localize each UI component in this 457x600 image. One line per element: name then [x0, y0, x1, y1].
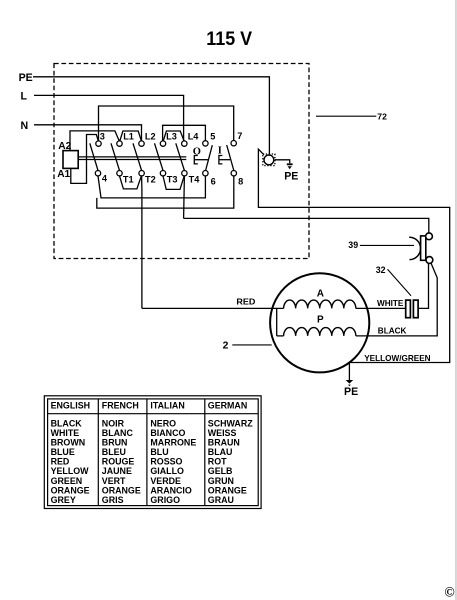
svg-text:GREEN: GREEN [51, 476, 83, 486]
svg-text:L3: L3 [166, 132, 177, 142]
svg-text:PE: PE [19, 72, 33, 84]
svg-text:PE: PE [284, 171, 298, 183]
wire bridge T3-T4 [163, 176, 184, 190]
svg-text:L4: L4 [188, 132, 200, 142]
page edge line [455, 0, 457, 600]
svg-text:T1: T1 [123, 174, 134, 184]
mechanical linkage lines [78, 156, 186, 158]
svg-text:©: © [444, 585, 454, 600]
wire bridge L3-L4 [163, 131, 184, 141]
wire capacitor to connector bottom [418, 263, 428, 308]
wire PE line [33, 77, 269, 154]
svg-text:7: 7 [237, 131, 242, 141]
wire RED lead into winding A [142, 307, 284, 309]
svg-text:115 V: 115 V [206, 28, 252, 50]
colour table column lines [97, 399, 99, 506]
wire T4 down [183, 176, 186, 219]
connector 39 bottom terminal [426, 257, 433, 264]
colour table outer border [44, 396, 261, 509]
connector 39 plug body [421, 236, 426, 260]
svg-text:GIALLO: GIALLO [150, 466, 184, 476]
svg-text:GREY: GREY [51, 495, 76, 505]
svg-text:NOIR: NOIR [102, 418, 125, 428]
wire bridge L1-L2 [120, 131, 142, 141]
svg-text:4: 4 [102, 174, 108, 184]
ground symbol at PE terminal [287, 163, 293, 165]
wire bus contact3 to contact7 [99, 106, 234, 141]
svg-text:ORANGE: ORANGE [208, 485, 247, 495]
svg-text:39: 39 [348, 240, 358, 250]
contact L4/T4 terminals [182, 141, 187, 146]
wire T2 down to motor RED [141, 176, 143, 309]
contact L1/T1 terminals [117, 141, 122, 146]
svg-text:YELLOW: YELLOW [51, 466, 90, 476]
svg-text:8: 8 [238, 177, 243, 187]
contact L2/T2 blade [133, 143, 142, 170]
wire A1 to contact3 top [71, 135, 99, 184]
svg-text:ITALIAN: ITALIAN [150, 401, 184, 411]
svg-text:N: N [21, 120, 29, 132]
connector 39 socket arc [409, 237, 420, 259]
wire PE terminal to ground [275, 160, 290, 164]
contact L2/T2 terminals [139, 141, 144, 146]
wire motor PE drop [348, 363, 350, 381]
leader line to 72 [316, 115, 376, 117]
wire P left lead [277, 335, 284, 337]
svg-text:ENGLISH: ENGLISH [51, 401, 90, 411]
svg-text:BLAU: BLAU [208, 447, 233, 457]
ground symbol motor PE [346, 380, 354, 384]
svg-text:GERMAN: GERMAN [208, 401, 247, 411]
svg-text:BRAUN: BRAUN [208, 438, 240, 448]
wire join A-P left [276, 308, 278, 336]
svg-text:WEISS: WEISS [208, 428, 237, 438]
svg-text:VERDE: VERDE [150, 476, 181, 486]
leader line to capacitor [388, 269, 412, 295]
svg-text:JAUNE: JAUNE [102, 466, 132, 476]
wire 8 to 4/6 junction [97, 176, 234, 208]
svg-text:BLU: BLU [150, 447, 168, 457]
colour table inner border [48, 399, 259, 506]
svg-text:MARRONE: MARRONE [150, 438, 196, 448]
svg-text:PE: PE [344, 386, 358, 398]
svg-text:BLEU: BLEU [102, 447, 126, 457]
svg-text:WHITE: WHITE [51, 428, 80, 438]
wire L line to L4 [34, 95, 184, 140]
svg-text:GELB: GELB [208, 466, 233, 476]
enclosure 72 dashed box [54, 64, 309, 259]
wire L3 top to 5 top [163, 125, 206, 141]
wire T4 to connector top [184, 218, 429, 232]
svg-text:VERT: VERT [102, 476, 126, 486]
svg-text:A: A [317, 288, 324, 299]
contact 7/8 terminals [231, 141, 236, 146]
svg-text:ROSSO: ROSSO [150, 457, 182, 467]
capacitor 32 [406, 300, 411, 318]
winding P [284, 328, 356, 336]
svg-text:GRAU: GRAU [208, 495, 234, 505]
leader line to motor [232, 344, 271, 346]
contact 5/6 terminals [203, 141, 208, 146]
svg-text:GRIS: GRIS [102, 495, 124, 505]
contact 3/4 blade [90, 143, 98, 170]
svg-text:GRUN: GRUN [208, 476, 234, 486]
svg-text:GRIGO: GRIGO [150, 495, 180, 505]
svg-text:T4: T4 [189, 174, 201, 184]
wire A2 to L1 top [70, 131, 119, 151]
svg-text:BLACK: BLACK [51, 418, 83, 428]
terminal PE box [263, 154, 275, 166]
svg-text:ORANGE: ORANGE [51, 485, 90, 495]
svg-text:72: 72 [377, 112, 387, 122]
svg-text:ORANGE: ORANGE [102, 485, 141, 495]
contact 7/8 blade [227, 145, 234, 171]
contact 3/4 terminals [96, 141, 101, 146]
colour table header line [48, 413, 259, 415]
contact L4/T4 blade [176, 143, 185, 170]
coil K1 A1/A2 [63, 151, 78, 169]
contact 5/6 blade [206, 145, 213, 170]
svg-text:2: 2 [223, 340, 229, 351]
svg-text:A1: A1 [57, 169, 70, 180]
svg-text:6: 6 [211, 177, 216, 187]
svg-text:BLACK: BLACK [378, 327, 407, 336]
svg-text:ROT: ROT [208, 457, 227, 467]
svg-text:ARANCIO: ARANCIO [150, 485, 192, 495]
wire PE terminal to yellow/green [258, 149, 449, 362]
contact L1/T1 blade [111, 143, 120, 170]
winding A [284, 300, 356, 308]
pushbutton I actuator [219, 156, 223, 164]
wire 4 to 6 [98, 176, 205, 198]
svg-text:ROUGE: ROUGE [102, 457, 135, 467]
svg-text:YELLOW/GREEN: YELLOW/GREEN [364, 354, 430, 363]
wire bridge T1-T2 [120, 176, 142, 189]
svg-text:BRUN: BRUN [102, 438, 128, 448]
svg-text:L: L [21, 90, 28, 102]
connector 39 top terminal [426, 233, 433, 240]
contact L3/T3 terminals [160, 141, 165, 146]
svg-text:BIANCO: BIANCO [150, 428, 185, 438]
svg-text:T2: T2 [145, 174, 156, 184]
svg-text:32: 32 [376, 265, 386, 275]
svg-text:T3: T3 [167, 174, 178, 184]
svg-text:3: 3 [100, 132, 105, 142]
svg-text:FRENCH: FRENCH [102, 401, 139, 411]
svg-text:BROWN: BROWN [51, 438, 86, 448]
svg-text:RED: RED [236, 298, 255, 307]
svg-text:SCHWARZ: SCHWARZ [208, 418, 253, 428]
svg-text:5: 5 [210, 131, 215, 141]
pushbutton O actuator [194, 156, 198, 164]
wire BLACK lead [356, 263, 437, 336]
motor M1 (2) body [270, 273, 369, 372]
wire WHITE lead to capacitor [356, 307, 406, 309]
svg-text:BLANC: BLANC [102, 428, 134, 438]
svg-text:L1: L1 [123, 132, 134, 142]
svg-text:P: P [317, 314, 324, 325]
svg-text:L2: L2 [145, 132, 156, 142]
contact L3/T3 blade [155, 143, 164, 170]
wire N line to L2 [34, 125, 142, 141]
svg-text:RED: RED [51, 457, 70, 467]
svg-text:NERO: NERO [150, 418, 176, 428]
svg-text:BLUE: BLUE [51, 447, 75, 457]
svg-text:WHITE: WHITE [377, 299, 404, 308]
leader line to connector [360, 244, 414, 246]
